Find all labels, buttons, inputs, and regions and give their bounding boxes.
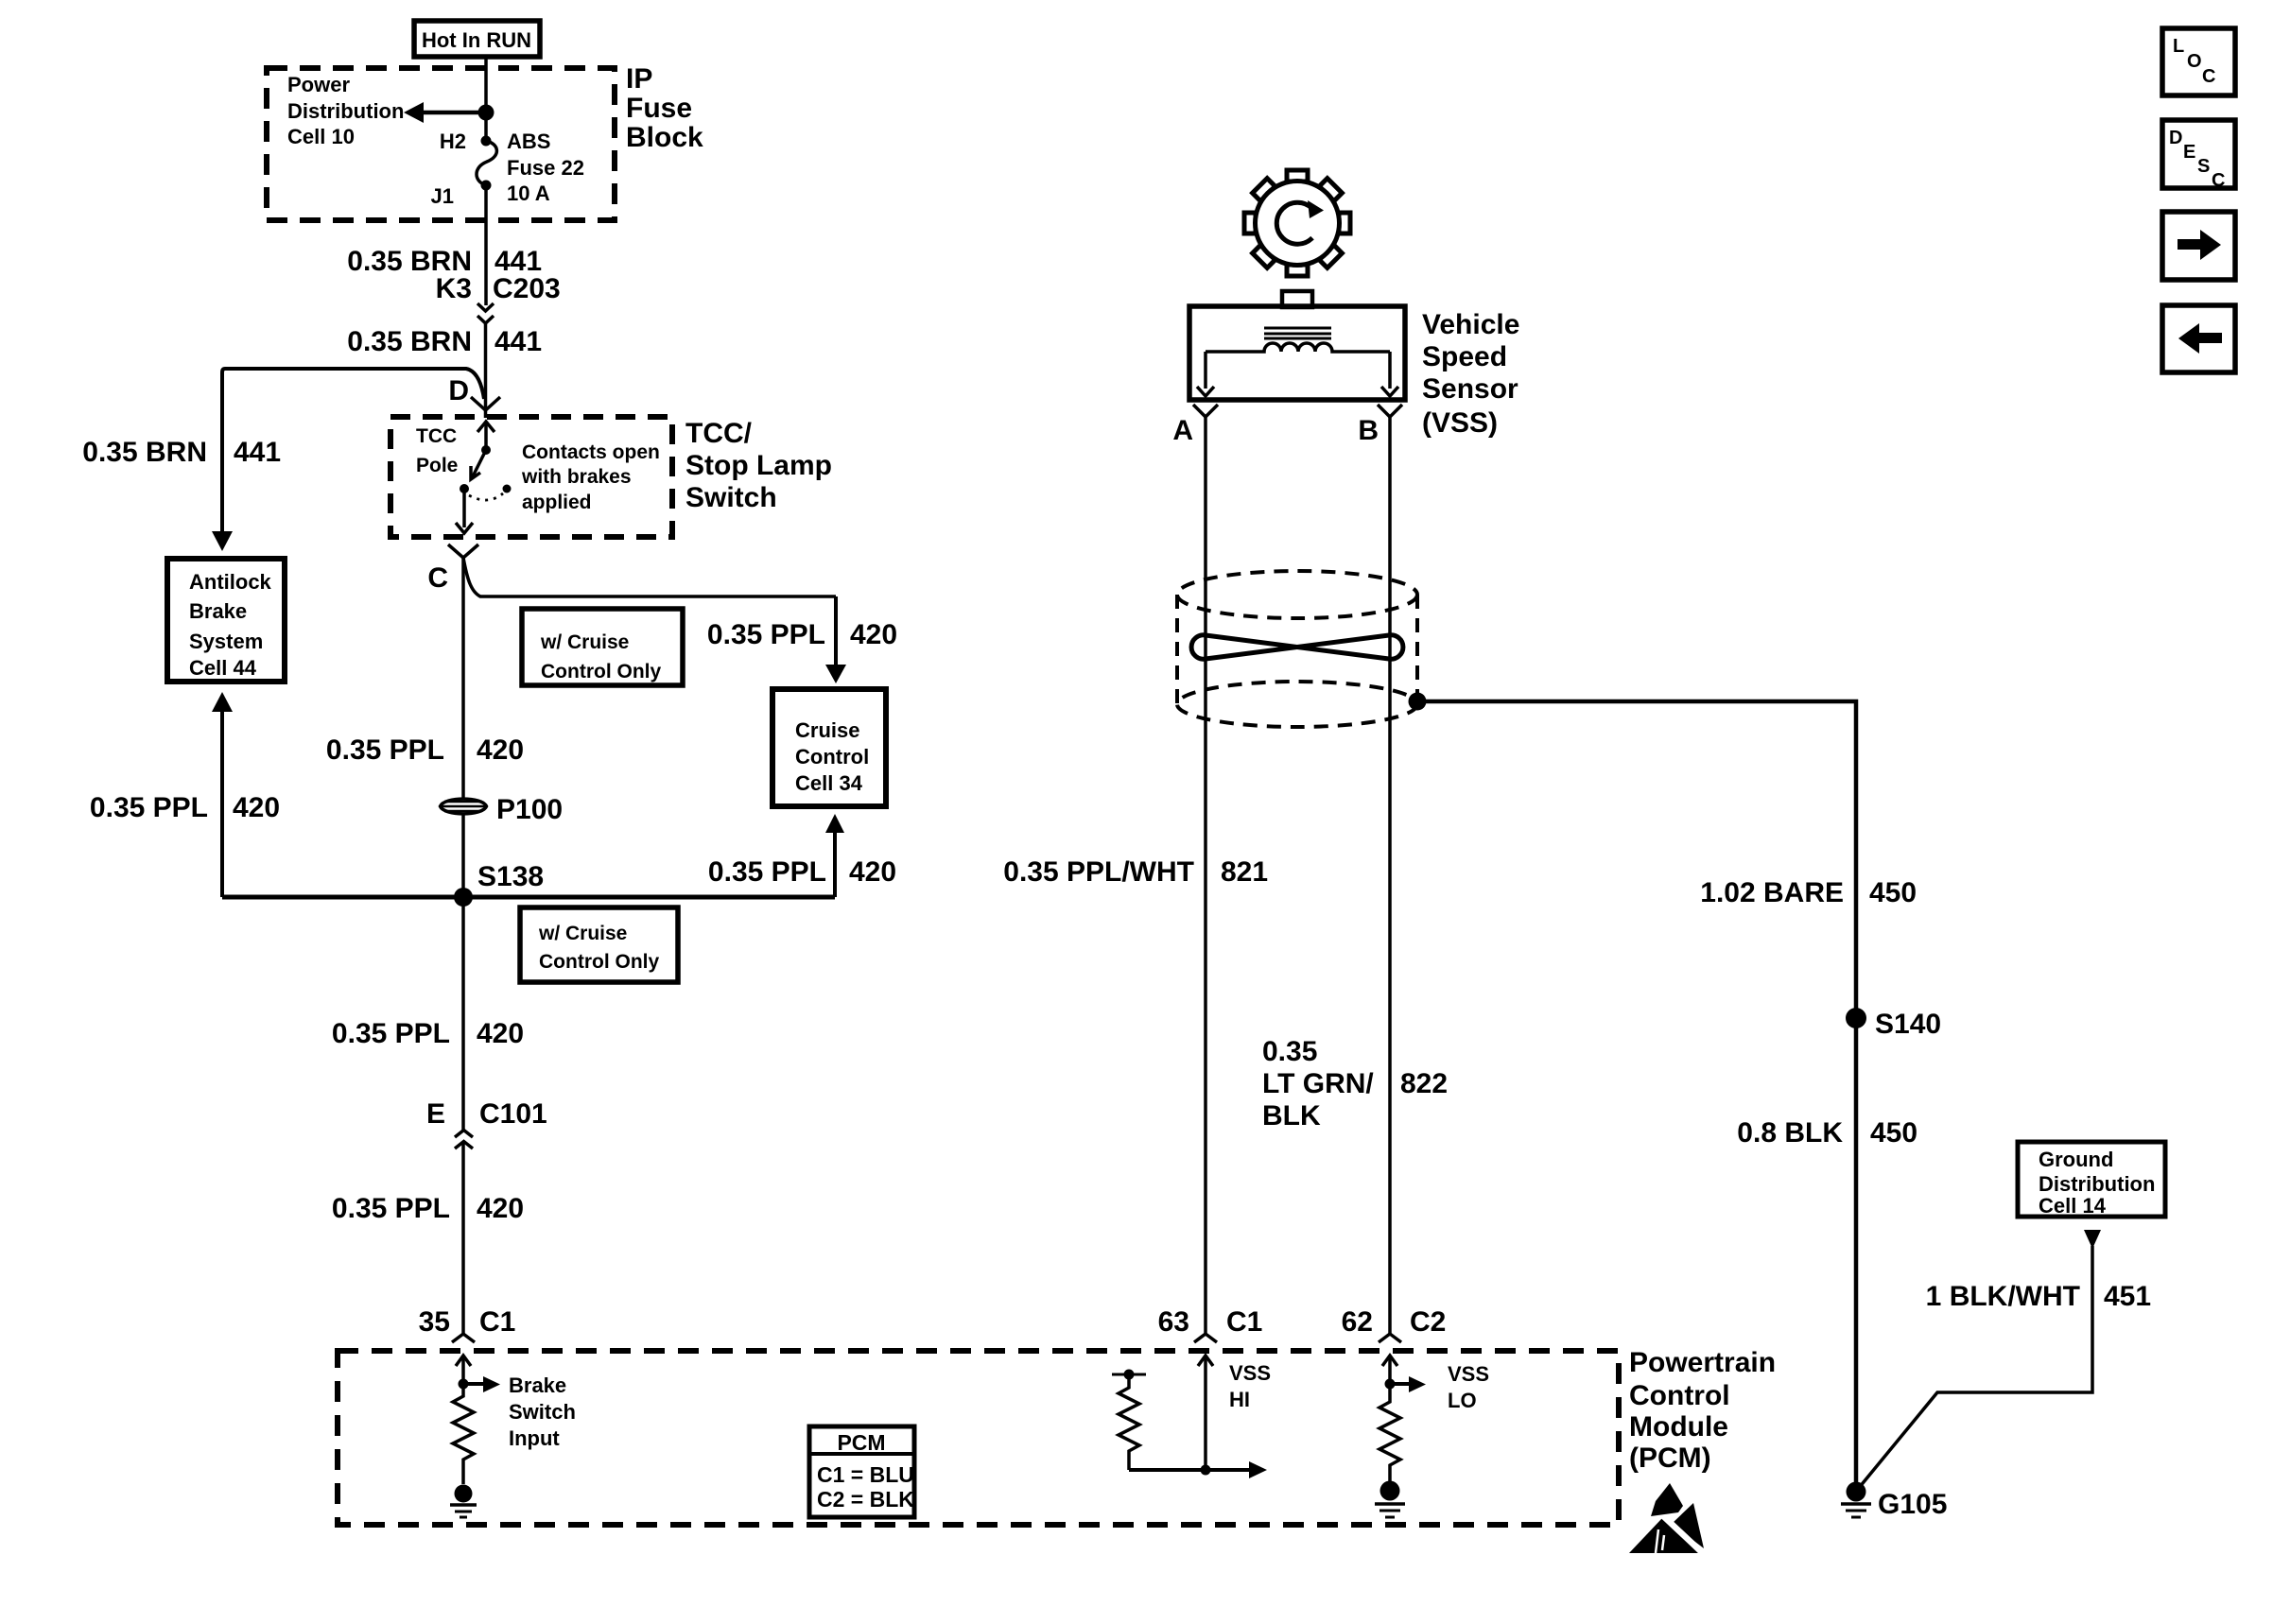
wire 420: C101 to PCM pin 35 <box>461 1142 465 1335</box>
wire S138 horizontal bus <box>222 895 835 900</box>
svg-text:Fuse 22: Fuse 22 <box>507 156 584 180</box>
svg-text:applied: applied <box>522 492 592 513</box>
label 0.35 PPL 420 (above PCM) <box>332 1193 524 1224</box>
ground (PCM internal, pin 62) <box>1375 1481 1405 1518</box>
svg-text:C2: C2 <box>1410 1306 1446 1338</box>
label 0.35 PPL/WHT 821 <box>1003 856 1268 888</box>
svg-text:0.35 BRN: 0.35 BRN <box>82 437 207 468</box>
arrow Brake Switch Input <box>463 1376 500 1392</box>
splice S140 dot <box>1846 1008 1866 1028</box>
shield drain junction dot <box>1409 693 1427 711</box>
svg-text:C2 = BLK: C2 = BLK <box>817 1487 914 1512</box>
switch blade arrow <box>471 450 486 479</box>
switch alternate contact dot <box>503 485 512 493</box>
svg-text:Cell 10: Cell 10 <box>287 125 355 148</box>
svg-text:ABS: ABS <box>507 130 550 153</box>
pin 62 chevron <box>1379 1334 1401 1342</box>
svg-text:Module: Module <box>1629 1411 1728 1443</box>
wire branch to Antilock Brake System <box>222 369 484 531</box>
svg-text:L: L <box>2173 36 2184 57</box>
svg-text:H2: H2 <box>440 130 466 153</box>
pin 35 internal arrow <box>456 1356 471 1384</box>
ESD sensitive device symbol <box>1629 1483 1706 1556</box>
VSS internal lead B <box>1381 352 1398 396</box>
svg-text:O: O <box>2187 51 2202 72</box>
label 0.35 BRN 441 (above C203) <box>347 246 542 277</box>
Powertrain Control Module dashed box <box>338 1351 1619 1525</box>
svg-text:PCM: PCM <box>837 1430 885 1455</box>
wire branch C to Cruise Control (w/ cruise) <box>463 558 836 596</box>
svg-text:35: 35 <box>419 1306 450 1338</box>
svg-text:0.35 PPL: 0.35 PPL <box>707 619 825 650</box>
label 0.35 PPL 420 (to cruise bottom) <box>708 856 896 888</box>
svg-text:System: System <box>189 630 263 653</box>
svg-text:with brakes: with brakes <box>521 466 632 488</box>
svg-text:Speed: Speed <box>1422 341 1507 372</box>
svg-text:Powertrain: Powertrain <box>1629 1347 1776 1378</box>
svg-text:Cruise: Cruise <box>795 718 859 742</box>
svg-text:Cell 44: Cell 44 <box>189 656 257 680</box>
label Power Distribution Cell 10 <box>287 73 404 148</box>
wire up from S138 bus to Antilock box <box>212 692 233 897</box>
pin 62 internal arrow (VSS LO) <box>1382 1356 1397 1384</box>
svg-text:B: B <box>1358 415 1379 446</box>
svg-text:Antilock: Antilock <box>189 570 272 594</box>
node: VSS HI junction <box>1201 1465 1211 1476</box>
TCC/Stop Lamp Switch title <box>685 418 832 513</box>
svg-text:HI: HI <box>1229 1388 1250 1411</box>
wire 451: to G105 <box>1859 1246 2092 1488</box>
switch pole pivot dot <box>481 445 491 455</box>
svg-text:C1: C1 <box>1226 1306 1262 1338</box>
svg-text:VSS: VSS <box>1229 1361 1271 1385</box>
svg-text:TCC/: TCC/ <box>685 418 753 449</box>
fuse ABS Fuse 22 10 A <box>477 136 496 191</box>
switch alternate contact dotted arc <box>469 493 503 500</box>
svg-text:62: 62 <box>1342 1306 1373 1338</box>
Vehicle Speed Sensor (VSS) title <box>1422 309 1519 439</box>
resistor: VSS LO pulldown <box>1379 1384 1400 1481</box>
node: brake switch input junction <box>459 1379 469 1390</box>
svg-text:1 BLK/WHT: 1 BLK/WHT <box>1926 1281 2080 1312</box>
switch fixed contact dot <box>460 484 469 493</box>
pin 62 C2 label <box>1342 1306 1447 1338</box>
label 0.35 BRN 441 (above D) <box>347 326 542 357</box>
svg-text:w/ Cruise: w/ Cruise <box>538 923 627 944</box>
label Contacts open with brakes applied <box>521 441 660 513</box>
grommet P100 <box>441 794 564 825</box>
label VSS HI <box>1229 1361 1271 1411</box>
Ground Distribution Cell 14 box <box>2018 1142 2165 1218</box>
svg-text:C1 = BLU: C1 = BLU <box>817 1462 914 1487</box>
svg-text:0.35 PPL: 0.35 PPL <box>708 856 826 888</box>
svg-text:K3: K3 <box>436 273 472 304</box>
svg-text:Contacts open: Contacts open <box>522 441 660 463</box>
svg-text:Power: Power <box>287 73 350 96</box>
label 0.35 BRN 441 (left branch) <box>82 437 281 468</box>
svg-text:0.35 PPL: 0.35 PPL <box>90 792 208 823</box>
wire 441: fuse J1 to connector C203 <box>484 185 488 305</box>
svg-text:Stop Lamp: Stop Lamp <box>685 450 832 481</box>
svg-text:Switch: Switch <box>685 482 777 513</box>
label 1.02 BARE 450 <box>1700 877 1917 908</box>
ground G105 <box>1841 1482 1871 1518</box>
w/ Cruise Control Only box (lower) <box>520 907 678 982</box>
svg-text:LO: LO <box>1448 1389 1477 1412</box>
LOC reference box <box>2162 28 2235 95</box>
svg-text:Control: Control <box>795 745 869 769</box>
svg-text:0.35 PPL: 0.35 PPL <box>332 1193 450 1224</box>
svg-text:S: S <box>2197 156 2210 177</box>
switch lower terminal arrow <box>456 489 473 533</box>
IP Fuse Block title <box>626 63 703 153</box>
svg-text:Sensor: Sensor <box>1422 373 1518 405</box>
label E C101 <box>426 1098 547 1130</box>
TCC/Stop Lamp Switch dashed box <box>390 417 672 537</box>
VSS coil winding <box>1206 343 1390 352</box>
wire 450: shield drain to G105 <box>1417 701 1856 1492</box>
PCM connector legend box <box>809 1426 914 1517</box>
svg-text:821: 821 <box>1221 856 1268 888</box>
svg-text:D: D <box>2169 128 2182 148</box>
svg-text:Input: Input <box>509 1426 560 1450</box>
wire 822: VSS B to PCM pin 62 <box>1388 417 1392 1335</box>
svg-text:C1: C1 <box>479 1306 515 1338</box>
svg-text:Control Only: Control Only <box>541 661 661 682</box>
fuse value label <box>507 130 584 205</box>
svg-text:10 A: 10 A <box>507 181 550 205</box>
arrow into Antilock box <box>212 531 233 551</box>
label VSS LO <box>1448 1362 1489 1412</box>
ground (PCM internal, pin 35) <box>450 1485 477 1518</box>
terminal A chevron <box>1193 405 1218 417</box>
arrow from Ground Distribution box <box>2084 1230 2101 1249</box>
svg-text:420: 420 <box>233 792 280 823</box>
wire/arrow VSS HI out <box>1129 1461 1267 1478</box>
switch upper terminal arrow <box>477 422 495 450</box>
wire 420: S138 to C101 <box>461 897 465 1131</box>
svg-text:Control: Control <box>1629 1380 1730 1411</box>
svg-text:63: 63 <box>1158 1306 1189 1338</box>
svg-text:C: C <box>427 562 448 594</box>
wire 420: C down to S138 <box>461 558 465 897</box>
wire arrow down into Cruise Control Cell 34 <box>825 596 846 683</box>
svg-text:TCC: TCC <box>416 425 457 447</box>
svg-text:Cell 14: Cell 14 <box>2039 1194 2107 1218</box>
svg-text:A: A <box>1172 415 1193 446</box>
label 0.35 PPL 420 (left) <box>90 792 280 823</box>
svg-text:Hot In RUN: Hot In RUN <box>422 28 531 52</box>
wire 821: VSS A to PCM pin 63 <box>1204 417 1207 1335</box>
svg-text:Distribution: Distribution <box>287 99 404 123</box>
pin 63 internal arrow (VSS HI) <box>1198 1356 1213 1470</box>
Vehicle Speed Sensor box <box>1189 306 1405 400</box>
svg-text:451: 451 <box>2104 1281 2151 1312</box>
svg-text:Block: Block <box>626 122 703 153</box>
svg-text:Cell 34: Cell 34 <box>795 771 863 795</box>
reluctor gear wheel <box>1244 170 1350 276</box>
connector D symbol <box>471 397 500 410</box>
Antilock Brake System Cell 44 box <box>167 559 285 682</box>
svg-text:0.35 PPL/WHT: 0.35 PPL/WHT <box>1003 856 1194 888</box>
Powertrain Control Module (PCM) title <box>1629 1347 1776 1474</box>
label Hot In RUN <box>414 21 540 57</box>
label 0.35 PPL 420 (above P100) <box>326 734 524 766</box>
svg-text:Brake: Brake <box>189 599 247 623</box>
svg-text:Brake: Brake <box>509 1373 566 1397</box>
label 0.35 PPL 420 (below S138) <box>332 1018 524 1049</box>
svg-text:0.35 BRN: 0.35 BRN <box>347 326 472 357</box>
DESC reference box <box>2162 120 2235 191</box>
svg-text:450: 450 <box>1869 877 1917 908</box>
label 0.35 LT GRN/ BLK 822 <box>1262 1036 1448 1132</box>
svg-text:Distribution: Distribution <box>2039 1172 2155 1196</box>
svg-text:w/ Cruise: w/ Cruise <box>540 631 629 653</box>
connector C203 label K3 <box>436 273 561 304</box>
svg-text:0.8 BLK: 0.8 BLK <box>1737 1117 1843 1149</box>
svg-text:Pole: Pole <box>416 455 458 476</box>
svg-text:Control Only: Control Only <box>539 951 659 973</box>
svg-text:822: 822 <box>1400 1068 1448 1099</box>
w/ Cruise Control Only box (upper) <box>522 609 683 685</box>
pin 63 chevron <box>1194 1334 1217 1342</box>
svg-text:Fuse: Fuse <box>626 93 692 124</box>
label 0.35 PPL 420 (to cruise top) <box>707 619 897 650</box>
svg-text:C101: C101 <box>479 1098 547 1130</box>
svg-text:441: 441 <box>495 326 542 357</box>
svg-text:G105: G105 <box>1878 1489 1947 1520</box>
svg-text:0.35 PPL: 0.35 PPL <box>326 734 444 766</box>
svg-text:420: 420 <box>477 1193 524 1224</box>
svg-text:1.02 BARE: 1.02 BARE <box>1700 877 1844 908</box>
node: VSS LO junction <box>1385 1379 1396 1390</box>
pin 35 C1 label <box>419 1306 516 1338</box>
svg-text:C203: C203 <box>493 273 561 304</box>
label 1 BLK/WHT 451 <box>1926 1281 2151 1312</box>
wire: Hot In RUN to fuse H2 <box>484 57 488 141</box>
svg-text:J1: J1 <box>431 184 454 208</box>
IP Fuse Block dashed box <box>267 68 615 220</box>
svg-text:E: E <box>426 1098 445 1130</box>
resistor: VSS HI bias with stub <box>1112 1370 1146 1471</box>
svg-text:IP: IP <box>626 63 652 95</box>
svg-text:Vehicle: Vehicle <box>1422 309 1519 340</box>
svg-text:VSS: VSS <box>1448 1362 1489 1386</box>
svg-text:441: 441 <box>234 437 281 468</box>
svg-text:C: C <box>2202 66 2215 87</box>
wire arrow up into Cruise Control box bottom <box>825 814 844 897</box>
next-page arrow box <box>2162 212 2235 280</box>
VSS internal lead A <box>1197 352 1214 396</box>
Cruise Control Cell 34 box <box>772 689 886 806</box>
svg-text:BLK: BLK <box>1262 1100 1321 1132</box>
svg-text:420: 420 <box>477 1018 524 1049</box>
node: junction to Power Distribution <box>478 105 495 121</box>
resistor: brake switch pulldown <box>453 1384 474 1484</box>
label TCC Pole <box>416 425 458 476</box>
connector C101 symbol <box>455 1131 473 1149</box>
svg-text:P100: P100 <box>496 794 563 825</box>
arrow VSS LO out <box>1390 1376 1426 1392</box>
connector C symbol <box>448 544 478 558</box>
shield dashed cylinder <box>1177 571 1417 727</box>
svg-text:C: C <box>2212 170 2225 191</box>
svg-text:E: E <box>2183 142 2195 163</box>
svg-text:Switch: Switch <box>509 1400 576 1424</box>
svg-text:(VSS): (VSS) <box>1422 407 1498 439</box>
svg-text:420: 420 <box>849 856 896 888</box>
svg-text:D: D <box>448 375 469 406</box>
svg-text:(PCM): (PCM) <box>1629 1443 1711 1474</box>
svg-text:0.35 PPL: 0.35 PPL <box>332 1018 450 1049</box>
svg-text:450: 450 <box>1870 1117 1917 1149</box>
svg-text:S140: S140 <box>1875 1009 1941 1040</box>
svg-text:LT GRN/: LT GRN/ <box>1262 1068 1374 1099</box>
pin 63 C1 label <box>1158 1306 1263 1338</box>
wire arrow to Power Distribution Cell 10 <box>404 102 486 123</box>
VSS pickup core lines <box>1264 328 1331 338</box>
label 0.8 BLK 450 <box>1737 1117 1917 1149</box>
svg-text:Ground: Ground <box>2039 1148 2113 1171</box>
svg-text:420: 420 <box>477 734 524 766</box>
label Brake Switch Input <box>509 1373 576 1450</box>
twisted pair crossing <box>1191 635 1403 659</box>
splice S138 junction dot <box>454 888 473 907</box>
svg-text:S138: S138 <box>477 861 544 892</box>
wire 441: C203 to D <box>484 323 488 409</box>
connector C203 symbol <box>477 303 494 323</box>
terminal B chevron <box>1378 405 1402 417</box>
pin 35 chevron <box>452 1334 475 1342</box>
svg-text:420: 420 <box>850 619 897 650</box>
VSS sensor tab <box>1282 291 1312 307</box>
svg-text:0.35: 0.35 <box>1262 1036 1317 1067</box>
prev-page arrow box <box>2162 305 2235 372</box>
